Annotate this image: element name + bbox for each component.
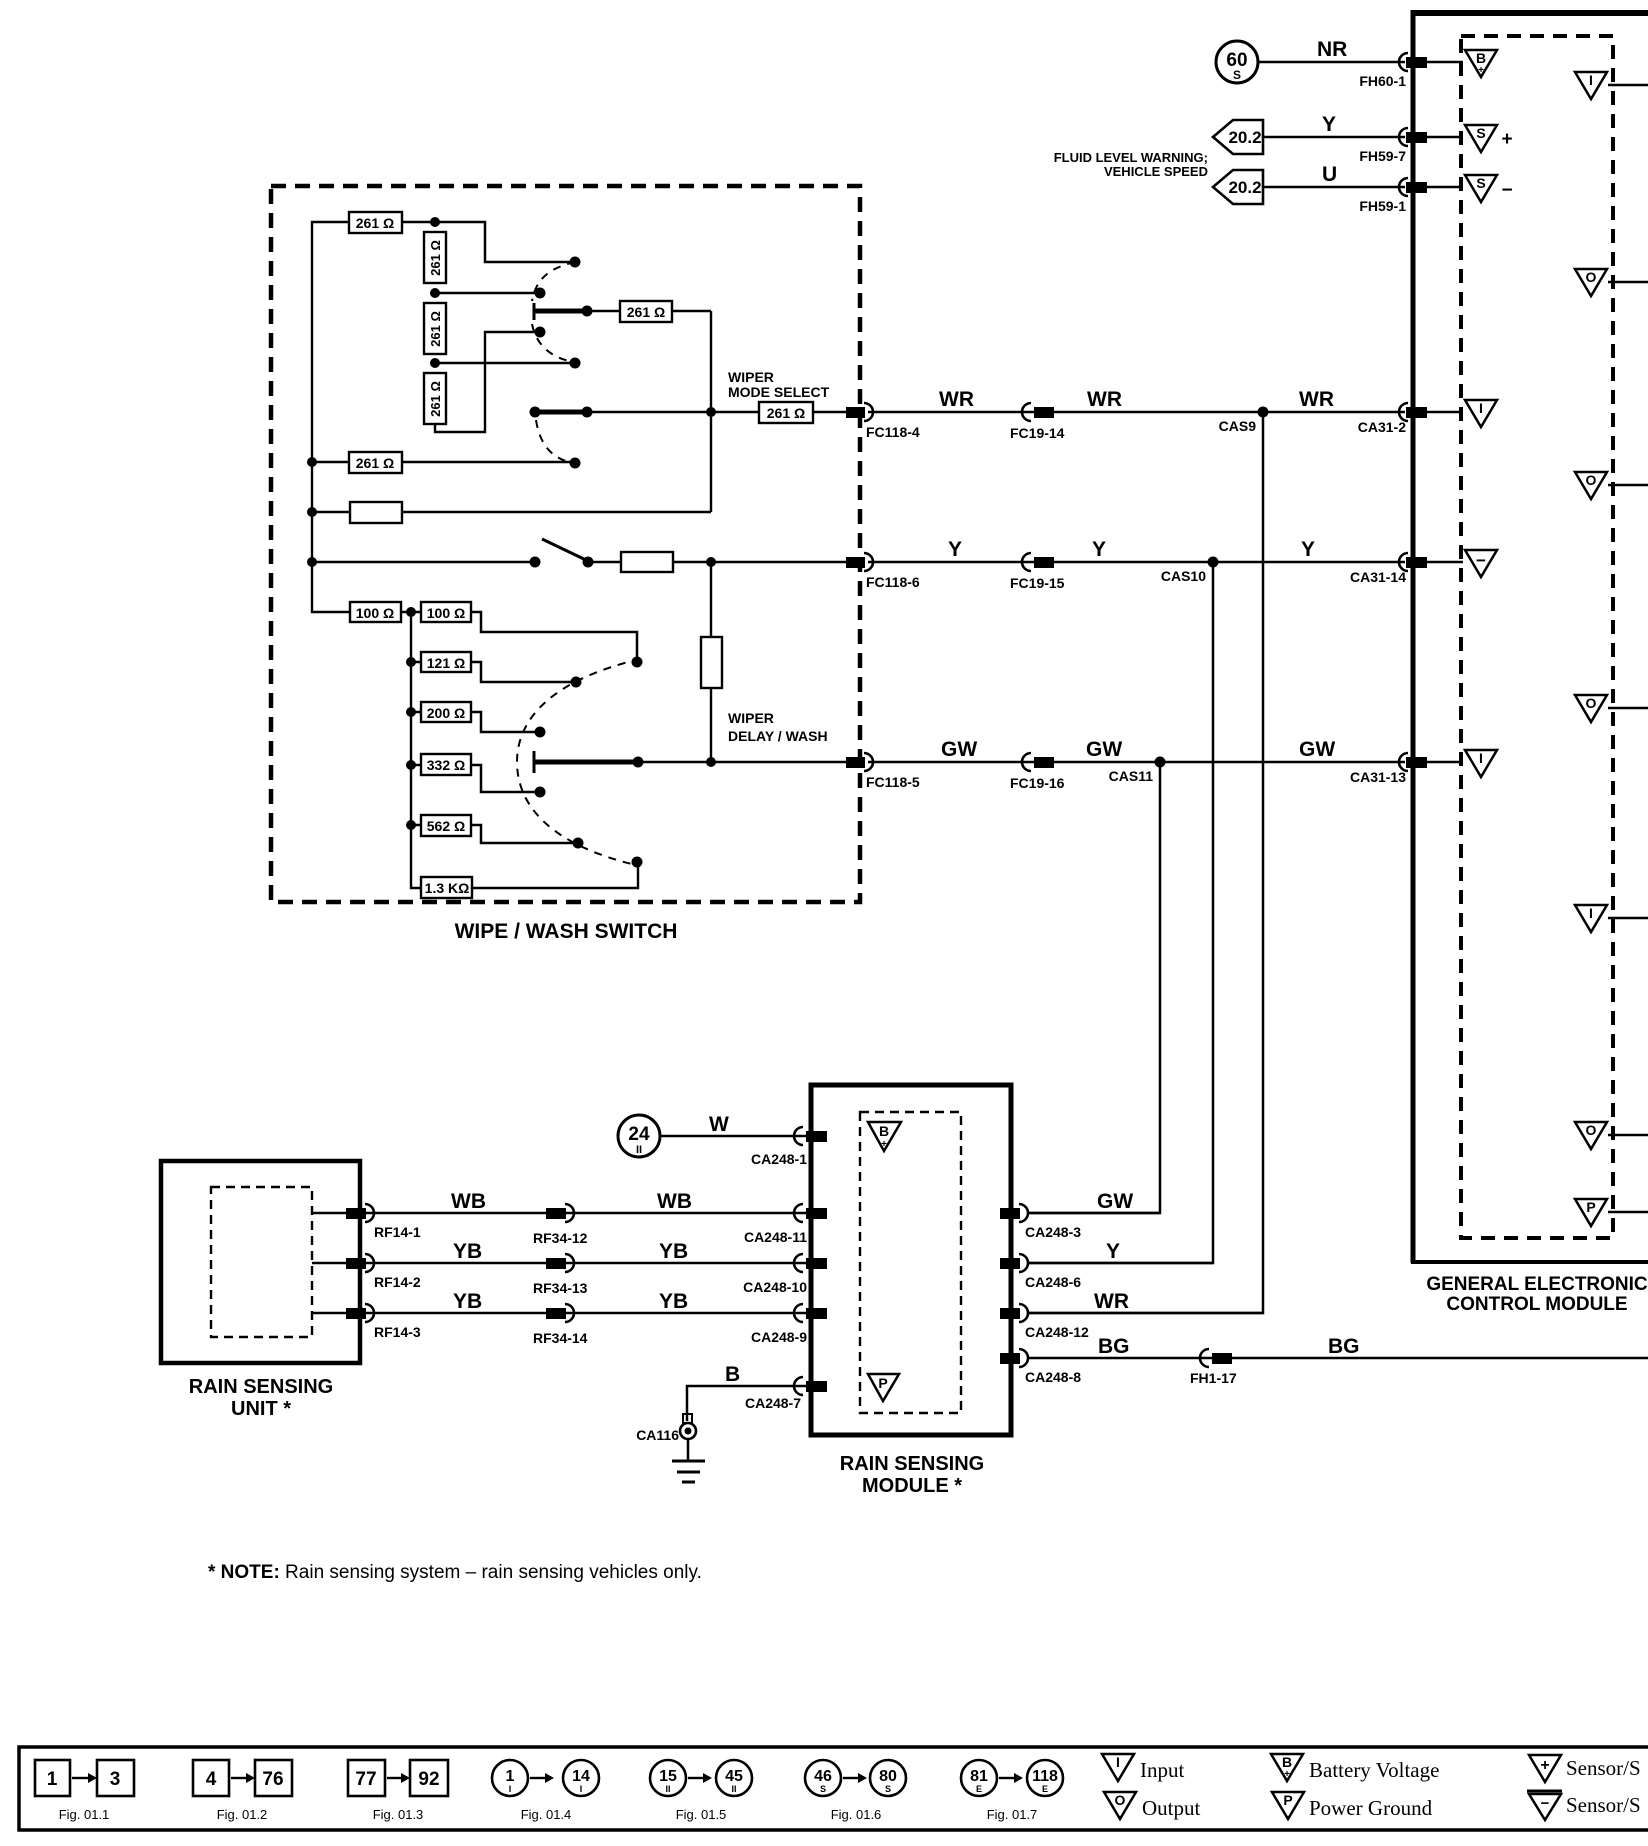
svg-text:GW: GW — [1086, 738, 1122, 761]
svg-text:RF14-3: RF14-3 — [374, 1324, 421, 1340]
wire B from ground to CA248-7 — [687, 1363, 806, 1421]
svg-text:S: S — [1476, 175, 1485, 191]
node junction top of resistor chain — [430, 217, 440, 227]
svg-text:100 Ω: 100 Ω — [427, 605, 465, 621]
switch SW1 dashed travel arc lower — [532, 324, 574, 362]
node 60S fuse symbol — [1216, 41, 1258, 83]
connector FC19-16 — [1010, 753, 1065, 791]
svg-text:GW: GW — [941, 738, 977, 761]
connector FC118-4 — [846, 403, 920, 440]
switch SW2 dashed travel arc — [536, 420, 573, 463]
svg-text:S: S — [820, 1784, 826, 1794]
svg-text:GW: GW — [1097, 1190, 1133, 1213]
connector CA31-2 — [1358, 403, 1463, 435]
resistor R1 261ohm — [349, 212, 435, 233]
label wiper delay / wash — [728, 710, 828, 744]
legend fig 01.4 range — [492, 1760, 599, 1822]
node junction GW-row at x711 — [706, 757, 716, 767]
svg-text:MODE SELECT: MODE SELECT — [728, 384, 830, 400]
resistor R17 1.3Kohm — [421, 857, 643, 899]
svg-text:YB: YB — [453, 1290, 482, 1313]
wire CAS11 vertical down to CA248-3 — [1029, 762, 1160, 1213]
svg-text:Sensor/S: Sensor/S — [1566, 1793, 1641, 1817]
GECM right column pin O output with stub — [1575, 695, 1648, 722]
svg-text:CA116: CA116 — [636, 1427, 679, 1443]
switch SW2 park arm with contacts — [530, 407, 760, 418]
switch SW1 dashed travel arc upper — [532, 262, 575, 301]
svg-text:CONTROL MODULE: CONTROL MODULE — [1446, 1294, 1627, 1315]
node arrow 20.2 (fluid level warning) — [1213, 120, 1263, 154]
svg-text:Output: Output — [1142, 1796, 1201, 1820]
node CAS11 junction — [1109, 757, 1166, 785]
svg-text:BG: BG — [1098, 1335, 1130, 1358]
svg-text:U: U — [1322, 163, 1337, 186]
GECM right column pin O output with stub — [1575, 1122, 1648, 1149]
GECM right column pin P power ground with stub — [1575, 1199, 1648, 1226]
svg-text:CA31-14: CA31-14 — [1350, 569, 1406, 585]
node junction Y-row at x711 — [706, 557, 716, 567]
wire GW from FC118-5 to CA31-13 — [868, 738, 1405, 762]
svg-text:CA248-7: CA248-7 — [745, 1395, 801, 1411]
svg-text:I: I — [580, 1784, 583, 1794]
svg-text:15: 15 — [659, 1768, 677, 1785]
svg-text:FC118-5: FC118-5 — [866, 774, 920, 790]
connector RF34-12 — [533, 1204, 588, 1246]
svg-text:Battery Voltage: Battery Voltage — [1309, 1758, 1439, 1782]
svg-text:S: S — [1476, 125, 1485, 141]
switch SW4 dashed travel arc — [517, 659, 640, 866]
legend fig 01.2 range — [193, 1760, 292, 1822]
svg-text:100 Ω: 100 Ω — [356, 605, 394, 621]
connector CA116 ring terminal — [636, 1414, 696, 1443]
legend sensor supply minus symbol — [1527, 1791, 1641, 1820]
svg-text:FH1-17: FH1-17 — [1190, 1370, 1237, 1386]
connector CA248-6 — [1000, 1254, 1081, 1290]
svg-text:RF34-14: RF34-14 — [533, 1330, 588, 1346]
resistor R11 100ohm — [350, 602, 421, 622]
module GECM outline (General Electronic Control Module) — [1411, 10, 1648, 1263]
svg-text:14: 14 — [572, 1768, 590, 1785]
svg-text:CA31-13: CA31-13 — [1350, 769, 1406, 785]
svg-text:FC19-15: FC19-15 — [1010, 575, 1065, 591]
connector RF34-13 — [533, 1254, 588, 1296]
wire Y to FH59-7 — [1263, 113, 1405, 137]
svg-text:121 Ω: 121 Ω — [427, 655, 465, 671]
svg-text:YB: YB — [659, 1290, 688, 1313]
svg-text:Fig. 01.3: Fig. 01.3 — [373, 1807, 424, 1822]
svg-text:CA248-1: CA248-1 — [751, 1151, 807, 1167]
legend fig 01.3 range — [348, 1760, 448, 1822]
svg-text:Fig. 01.4: Fig. 01.4 — [521, 1807, 572, 1822]
svg-text:WIPE / WASH SWITCH: WIPE / WASH SWITCH — [455, 920, 678, 943]
connector CA248-1 — [751, 1127, 827, 1167]
svg-text:UNIT *: UNIT * — [231, 1398, 291, 1420]
svg-text:46: 46 — [814, 1768, 832, 1785]
connector FC19-15 — [1010, 553, 1065, 591]
svg-text:20.2: 20.2 — [1228, 178, 1261, 197]
node 24II power feed symbol — [618, 1115, 660, 1157]
legend power ground symbol — [1272, 1792, 1433, 1820]
svg-text:II: II — [636, 1144, 642, 1156]
module RAIN SENSING MODULE outline — [811, 1085, 1011, 1435]
svg-text:CAS9: CAS9 — [1219, 418, 1257, 434]
wire W from 24II to CA248-1 — [660, 1113, 806, 1136]
svg-text:W: W — [709, 1113, 729, 1136]
svg-text:I: I — [1479, 400, 1483, 416]
svg-text:NR: NR — [1317, 38, 1347, 61]
svg-text:WB: WB — [657, 1190, 692, 1213]
svg-text:45: 45 — [725, 1768, 743, 1785]
resistor R5 261ohm after mode arm — [620, 301, 711, 322]
svg-text:Y: Y — [1301, 538, 1315, 561]
svg-text:E: E — [976, 1784, 982, 1794]
resistor R15 332ohm — [411, 754, 546, 798]
wire BG from CA248-8 to right edge — [1029, 1335, 1648, 1358]
svg-text:76: 76 — [262, 1769, 283, 1790]
pin symbol battery voltage triangle B+ — [1465, 50, 1497, 77]
svg-text:1.3 KΩ: 1.3 KΩ — [425, 880, 470, 896]
svg-text:200 Ω: 200 Ω — [427, 705, 465, 721]
svg-text:FC19-16: FC19-16 — [1010, 775, 1065, 791]
wire delay ladder left bus — [406, 607, 421, 888]
resistor R13 121ohm — [411, 652, 582, 688]
wire Y-row from bus to switch SW3 — [312, 561, 535, 564]
svg-text:Y: Y — [1106, 1240, 1120, 1263]
label wiper mode select — [728, 369, 830, 400]
svg-text:WR: WR — [939, 388, 974, 411]
GECM right column pin O output with stub — [1575, 269, 1648, 296]
svg-text:II: II — [665, 1784, 670, 1794]
resistor R10 vertical unlabeled — [701, 637, 722, 688]
node junction between R3 R4 — [430, 358, 440, 368]
svg-text:261 Ω: 261 Ω — [356, 215, 394, 231]
svg-text:77: 77 — [355, 1769, 376, 1790]
connector RF14-2 — [346, 1254, 421, 1290]
switch SW4 wiper delay arm — [534, 751, 846, 773]
svg-text:Fig. 01.1: Fig. 01.1 — [59, 1807, 110, 1822]
svg-text:RF34-13: RF34-13 — [533, 1280, 588, 1296]
resistor R8 261ohm wiper mode select output — [759, 402, 846, 423]
svg-text:CA248-3: CA248-3 — [1025, 1224, 1081, 1240]
svg-text:CAS10: CAS10 — [1161, 568, 1206, 584]
legend output symbol — [1104, 1792, 1201, 1820]
svg-text:Fig. 01.7: Fig. 01.7 — [987, 1807, 1038, 1822]
legend battery voltage symbol — [1271, 1754, 1439, 1782]
connector FH59-7 — [1359, 128, 1463, 164]
svg-text:24: 24 — [628, 1124, 650, 1145]
module WIPE/WASH SWITCH dashed outline — [271, 186, 860, 902]
wire tap D from R4 bottom to mode contact 4 — [435, 327, 546, 433]
svg-text:118: 118 — [1032, 1768, 1058, 1785]
connector CA248-3 — [1000, 1204, 1081, 1240]
legend bar frame — [19, 1747, 1648, 1830]
svg-text:FC118-6: FC118-6 — [866, 574, 920, 590]
svg-text:I: I — [1479, 750, 1483, 766]
wire vertical from Y-row down to GW-row — [710, 562, 712, 762]
pin symbol power ground triangle P in module — [868, 1374, 899, 1401]
svg-text:WB: WB — [451, 1190, 486, 1213]
svg-text:P: P — [878, 1375, 887, 1391]
resistor R4 261ohm vertical — [424, 373, 446, 424]
connector RF34-14 — [533, 1304, 588, 1346]
connector RF14-1 — [346, 1204, 421, 1240]
legend input symbol — [1102, 1754, 1184, 1782]
pin symbol sensor minus triangle at CA31-14 — [1465, 550, 1497, 577]
pin symbol sensor supply minus triangle S- — [1465, 175, 1513, 202]
svg-text:81: 81 — [970, 1768, 988, 1785]
svg-text:+: + — [881, 1139, 887, 1150]
connector CA31-13 — [1350, 753, 1463, 785]
svg-text:O: O — [1586, 695, 1597, 711]
svg-text:B: B — [879, 1123, 889, 1139]
svg-text:B: B — [1476, 50, 1486, 66]
svg-text:P: P — [1586, 1199, 1595, 1215]
wire tap A to mode contact 1 — [435, 222, 581, 268]
resistor R2 261ohm vertical — [424, 232, 446, 283]
svg-text:Y: Y — [1322, 113, 1336, 136]
node junction at mode select output — [706, 407, 716, 417]
node junction between R2 R3 — [430, 288, 440, 298]
svg-text:+: + — [1540, 1757, 1549, 1774]
svg-text:CA248-8: CA248-8 — [1025, 1369, 1081, 1385]
svg-text:261 Ω: 261 Ω — [428, 240, 443, 276]
svg-text:FH59-1: FH59-1 — [1359, 198, 1406, 214]
svg-text:Power Ground: Power Ground — [1309, 1796, 1433, 1820]
RSM inner dashed boundary — [860, 1112, 961, 1413]
svg-text:261 Ω: 261 Ω — [767, 405, 805, 421]
wire NR from fuse 60S to FH60-1 — [1258, 38, 1405, 62]
svg-text:FH59-7: FH59-7 — [1359, 148, 1406, 164]
svg-text:Fig. 01.2: Fig. 01.2 — [217, 1807, 268, 1822]
svg-text:261 Ω: 261 Ω — [627, 304, 665, 320]
resistor R7 unlabeled row — [312, 502, 711, 523]
svg-text:FC19-14: FC19-14 — [1010, 425, 1065, 441]
svg-text:O: O — [1586, 269, 1597, 285]
svg-text:261 Ω: 261 Ω — [428, 311, 443, 347]
svg-text:P: P — [1283, 1792, 1292, 1808]
pin symbol input triangle I at CA31-2 — [1465, 400, 1497, 427]
svg-text:92: 92 — [418, 1769, 439, 1790]
svg-text:Y: Y — [948, 538, 962, 561]
svg-text:−: − — [1541, 1795, 1550, 1812]
svg-text:WR: WR — [1094, 1290, 1129, 1313]
svg-text:I: I — [1116, 1754, 1120, 1770]
svg-text:VEHICLE SPEED: VEHICLE SPEED — [1104, 164, 1208, 179]
svg-text:Y: Y — [1092, 538, 1106, 561]
svg-text:332 Ω: 332 Ω — [427, 757, 465, 773]
svg-text:I: I — [1589, 905, 1593, 921]
svg-text:RF14-2: RF14-2 — [374, 1274, 421, 1290]
RSU inner dashed boundary — [211, 1187, 312, 1337]
connector CA248-12 — [1000, 1304, 1089, 1340]
svg-text:O: O — [1115, 1792, 1126, 1808]
svg-text:CA248-11: CA248-11 — [744, 1229, 807, 1245]
svg-text:FH60-1: FH60-1 — [1359, 73, 1406, 89]
resistor R12 100ohm — [421, 602, 643, 668]
GECM right column pin O output with stub — [1575, 472, 1648, 499]
svg-text:B: B — [725, 1363, 740, 1386]
svg-text:261 Ω: 261 Ω — [428, 381, 443, 417]
wire tap C to mode contact 3 — [435, 358, 581, 369]
svg-text:WIPER: WIPER — [728, 369, 774, 385]
pin symbol input triangle I at CA31-13 — [1465, 750, 1497, 777]
wire tap B to mode contact 2 — [435, 288, 546, 299]
resistor R16 562ohm — [411, 815, 584, 849]
svg-text:FC118-4: FC118-4 — [866, 424, 920, 440]
svg-text:4: 4 — [206, 1769, 217, 1790]
svg-text:+: + — [1478, 65, 1484, 76]
svg-text:CA248-12: CA248-12 — [1025, 1324, 1089, 1340]
connector RF14-3 — [346, 1304, 421, 1340]
svg-text:FLUID LEVEL WARNING;: FLUID LEVEL WARNING; — [1054, 150, 1208, 165]
pin symbol sensor supply plus triangle S+ — [1465, 125, 1513, 152]
connector CA248-11 — [744, 1204, 827, 1245]
svg-text:RF14-1: RF14-1 — [374, 1224, 421, 1240]
wire U to FH59-1 — [1263, 163, 1405, 187]
svg-text:O: O — [1586, 1122, 1597, 1138]
resistor R6 261ohm row — [312, 452, 581, 473]
svg-text:Fig. 01.6: Fig. 01.6 — [831, 1807, 882, 1822]
connector FC118-6 — [846, 553, 920, 590]
connector FH60-1 — [1359, 53, 1463, 89]
connector CA248-10 — [743, 1254, 827, 1295]
svg-text:RF34-12: RF34-12 — [533, 1230, 588, 1246]
connector CA31-14 — [1350, 553, 1463, 585]
svg-text:E: E — [1042, 1784, 1048, 1794]
svg-text:BG: BG — [1328, 1335, 1360, 1358]
svg-text:* NOTE: Rain sensing system –: * NOTE: Rain sensing system – rain sensi… — [208, 1562, 702, 1583]
svg-text:S: S — [885, 1784, 891, 1794]
switch SW1 wiper mode select arm — [534, 303, 620, 320]
legend fig 01.7 range — [961, 1760, 1063, 1822]
wire WB from RF14-1 to CA248-11 — [312, 1190, 806, 1213]
switch SW3 wash switch open blade — [530, 539, 622, 568]
svg-text:B: B — [1282, 1754, 1292, 1770]
svg-text:+: + — [1284, 1769, 1290, 1780]
GECM right column pin I input with stub — [1575, 72, 1648, 99]
connector FH1-17 inline on BG wire — [1190, 1349, 1237, 1386]
wire WR from CA248-12 up to CAS9 vertical — [1029, 1290, 1263, 1313]
resistor R14 200ohm — [411, 702, 546, 738]
note text — [208, 1562, 702, 1583]
wire left bus of switch — [307, 222, 350, 612]
wire GW from CA248-3 up to CAS11 vertical — [1029, 1190, 1160, 1213]
svg-text:WIPER: WIPER — [728, 710, 774, 726]
svg-text:RAIN SENSING: RAIN SENSING — [840, 1453, 984, 1475]
svg-text:Input: Input — [1140, 1758, 1184, 1782]
svg-text:CA31-2: CA31-2 — [1358, 419, 1406, 435]
module RAIN SENSING UNIT outline — [161, 1161, 360, 1363]
wire YB from RF14-2 to CA248-10 — [312, 1240, 806, 1263]
wire Y from FC118-6 to CA31-14 — [868, 538, 1405, 562]
svg-text:WR: WR — [1087, 388, 1122, 411]
svg-text:20.2: 20.2 — [1228, 128, 1261, 147]
svg-text:1: 1 — [506, 1768, 515, 1785]
svg-text:II: II — [731, 1784, 736, 1794]
svg-text:Sensor/S: Sensor/S — [1566, 1756, 1641, 1780]
node arrow 20.2 (vehicle speed) — [1213, 170, 1263, 204]
svg-text:O: O — [1586, 472, 1597, 488]
svg-text:RAIN SENSING: RAIN SENSING — [189, 1376, 333, 1398]
label rain sensing module title — [840, 1453, 984, 1497]
legend fig 01.1 range — [35, 1760, 134, 1822]
svg-text:562 Ω: 562 Ω — [427, 818, 465, 834]
svg-text:261 Ω: 261 Ω — [356, 455, 394, 471]
ground symbol — [672, 1439, 705, 1482]
wire CAS9 vertical down to rain sensing module CA248-12 — [1029, 412, 1263, 1313]
label rain sensing unit title — [189, 1376, 333, 1420]
svg-text:I: I — [509, 1784, 512, 1794]
wire vertical from mode arm output down — [710, 311, 712, 512]
legend fig 01.6 range — [805, 1760, 906, 1822]
svg-text:YB: YB — [659, 1240, 688, 1263]
svg-text:Fig. 01.5: Fig. 01.5 — [676, 1807, 727, 1822]
legend fig 01.5 range — [650, 1760, 752, 1822]
connector FC118-5 — [846, 753, 920, 790]
svg-text:CAS11: CAS11 — [1109, 768, 1154, 784]
svg-text:1: 1 — [47, 1769, 58, 1790]
svg-text:WR: WR — [1299, 388, 1334, 411]
wire WR from FC118-4 to CA31-2 — [868, 388, 1405, 412]
wire YB from RF14-3 to CA248-9 — [312, 1290, 806, 1313]
resistor R3 261ohm vertical — [424, 303, 446, 354]
label GECM title — [1426, 1274, 1648, 1315]
node CAS9 junction — [1219, 407, 1269, 435]
GECM inner dashed boundary — [1461, 36, 1613, 1238]
svg-text:−: − — [1501, 180, 1512, 201]
pin symbol battery triangle B+ in module — [868, 1122, 901, 1151]
svg-text:+: + — [1501, 129, 1512, 150]
svg-text:I: I — [1589, 72, 1593, 88]
node CAS10 junction — [1161, 557, 1219, 585]
svg-text:GW: GW — [1299, 738, 1335, 761]
svg-text:YB: YB — [453, 1240, 482, 1263]
svg-text:GENERAL ELECTRONIC: GENERAL ELECTRONIC — [1426, 1274, 1648, 1295]
svg-text:CA248-6: CA248-6 — [1025, 1274, 1081, 1290]
svg-text:80: 80 — [879, 1768, 897, 1785]
svg-text:CA248-10: CA248-10 — [743, 1279, 807, 1295]
svg-text:S: S — [1233, 68, 1241, 82]
connector CA248-8 — [1000, 1349, 1081, 1385]
connector FH59-1 — [1359, 178, 1463, 214]
legend sensor supply plus symbol — [1529, 1755, 1641, 1782]
wire Y from CA248-6 up to CAS10 vertical — [1029, 1240, 1213, 1263]
connector CA248-7 — [745, 1377, 827, 1411]
svg-text:3: 3 — [110, 1769, 121, 1790]
svg-text:MODULE *: MODULE * — [862, 1475, 962, 1497]
label fluid level warning / vehicle speed — [1054, 150, 1208, 179]
svg-text:DELAY / WASH: DELAY / WASH — [728, 728, 828, 744]
connector CA248-9 — [751, 1304, 827, 1345]
svg-text:CA248-9: CA248-9 — [751, 1329, 807, 1345]
GECM right column pin I input with stub — [1575, 905, 1648, 932]
wire CAS10 vertical down to CA248-6 — [1029, 562, 1213, 1263]
connector FC19-14 — [1010, 403, 1065, 441]
svg-text:−: − — [1476, 551, 1486, 570]
resistor R9 unlabeled wash row — [621, 552, 846, 572]
